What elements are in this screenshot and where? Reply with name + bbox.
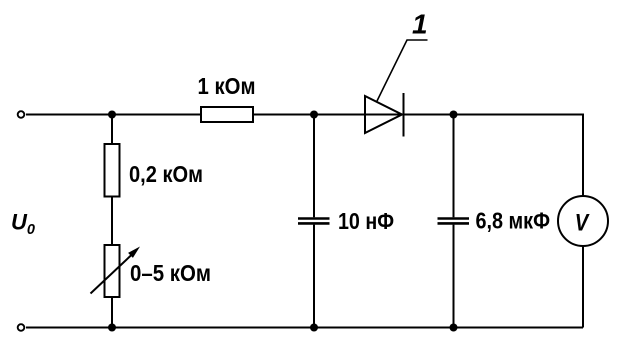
wire top segment middle through diode bbox=[253, 115, 583, 197]
wire left branch upper bbox=[111, 115, 113, 145]
diode V1 triangle bbox=[365, 96, 402, 133]
svg-text:1 кОм: 1 кОм bbox=[198, 73, 256, 99]
resistor R2 0,2 kOhm bbox=[105, 144, 120, 197]
node dot bottom at C2 bbox=[450, 324, 458, 332]
node dot top at C2 bbox=[450, 111, 458, 119]
capacitor C1 branch upper wire bbox=[313, 115, 315, 218]
svg-text:6,8 мкФ: 6,8 мкФ bbox=[476, 208, 551, 234]
svg-text:0–5 кОм: 0–5 кОм bbox=[130, 260, 211, 286]
capacitor C2 plates bbox=[438, 217, 470, 220]
wire bottom bbox=[26, 327, 583, 329]
terminal top-left bbox=[18, 111, 25, 118]
node dot top at R branch bbox=[108, 111, 116, 119]
node dot top at C1 bbox=[310, 111, 318, 119]
resistor R1 1 kOhm bbox=[201, 107, 253, 122]
leader line to label 1 bbox=[377, 40, 428, 101]
capacitor C2 branch upper wire bbox=[453, 115, 455, 218]
resistor R3 variable 0-5 kOhm bbox=[105, 245, 120, 297]
capacitor C1 branch lower wire bbox=[313, 225, 315, 328]
svg-text:10 нФ: 10 нФ bbox=[338, 208, 394, 234]
wire right vertical lower bbox=[582, 246, 584, 328]
variable resistor arrow bbox=[91, 254, 134, 294]
capacitor C1 plates bbox=[298, 217, 330, 220]
wire top segment left bbox=[26, 114, 201, 116]
wire left branch lower bbox=[111, 297, 113, 328]
svg-text:1: 1 bbox=[412, 9, 428, 40]
svg-text:U0: U0 bbox=[11, 210, 35, 239]
wire left branch middle bbox=[111, 197, 113, 246]
svg-text:V: V bbox=[575, 210, 590, 237]
node dot bottom at C1 bbox=[310, 324, 318, 332]
diode cathode bar bbox=[403, 93, 405, 137]
voltmeter PV1 bbox=[558, 196, 608, 246]
terminal bottom-left bbox=[18, 324, 25, 331]
node dot bottom at R branch bbox=[108, 324, 116, 332]
svg-text:0,2 кОм: 0,2 кОм bbox=[129, 161, 203, 187]
capacitor C2 branch lower wire bbox=[453, 225, 455, 328]
